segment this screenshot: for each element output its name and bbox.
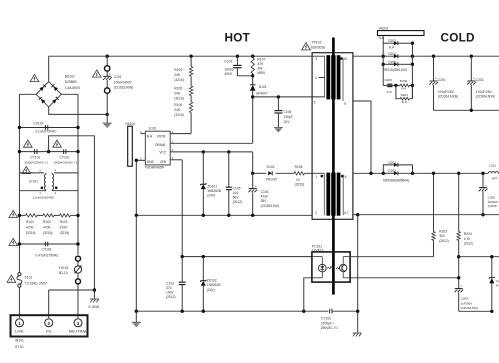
svg-text:1.5A,800V: 1.5A,800V — [65, 86, 81, 90]
svg-text:+: + — [473, 76, 475, 80]
wire LF101 top right — [54, 172, 78, 174]
svg-text:N.A: N.A — [379, 36, 385, 40]
label R107 — [257, 57, 265, 75]
pin 9 label — [344, 102, 346, 106]
label SR506A — [383, 178, 410, 182]
svg-text:(2012): (2012) — [233, 200, 243, 204]
svg-text:R104: R104 — [174, 68, 182, 72]
label LF101 value — [33, 196, 54, 200]
secondary winding line bottom — [342, 175, 344, 216]
capacitor C204 — [455, 284, 464, 311]
label D205 — [388, 60, 396, 64]
junction bridge minus / C101 minus — [106, 113, 109, 116]
svg-text:+: + — [485, 184, 487, 188]
capacitor CY102 — [64, 149, 66, 154]
label SR210 — [383, 68, 407, 72]
capacitor CY103 — [330, 309, 332, 314]
label CY102 — [53, 156, 77, 165]
label D102 — [266, 165, 278, 181]
svg-text:D25B80: D25B80 — [65, 80, 77, 84]
wire bridge left to left rail — [19, 93, 36, 95]
svg-text:(CD263,K98): (CD263,K98) — [114, 86, 133, 90]
svg-text:CX102: CX102 — [33, 121, 43, 125]
svg-text:(CD263.KM): (CD263.KM) — [461, 306, 478, 310]
svg-text:UF4007: UF4007 — [256, 91, 268, 95]
label C204 — [461, 297, 478, 311]
junction bottom rail left — [135, 310, 138, 313]
svg-text:D204: D204 — [388, 52, 396, 56]
wire secondary top rail — [353, 55, 499, 57]
junction bottom at opto — [302, 310, 305, 313]
label S-GND — [88, 305, 99, 309]
label F101 — [25, 276, 48, 286]
capacitor C105 — [226, 152, 232, 215]
connector IN101 box — [11, 315, 88, 336]
svg-text:S-GND: S-GND — [88, 305, 99, 309]
capacitor C104 — [249, 173, 258, 215]
svg-text:3: 3 — [315, 57, 317, 61]
svg-text:2: 2 — [315, 211, 317, 215]
capacitor C101 — [103, 56, 112, 114]
junction GND rail left — [135, 214, 138, 217]
svg-text:N.A: N.A — [387, 90, 393, 94]
capacitor C106 — [274, 97, 282, 128]
svg-text:47uF: 47uF — [261, 194, 269, 198]
svg-text:2: 2 — [47, 321, 50, 326]
junction CY row right — [76, 150, 79, 153]
svg-text:EER3016: EER3016 — [311, 46, 325, 50]
resistor R108 — [294, 172, 305, 175]
svg-text:C204: C204 — [461, 297, 469, 301]
svg-text:470K: 470K — [26, 226, 35, 230]
connector pin 3 NEUTRAL — [69, 319, 88, 334]
junction on B+ rail at C102 — [236, 55, 239, 58]
svg-text:R106: R106 — [174, 103, 182, 107]
svg-text:R204: R204 — [464, 232, 472, 236]
zener ZD102 — [200, 257, 206, 312]
svg-text:4.7K: 4.7K — [464, 237, 472, 241]
svg-text:(CD28: (CD28 — [488, 204, 497, 208]
svg-text:F101: F101 — [25, 276, 33, 280]
junction CX102 right — [76, 126, 79, 129]
svg-text:12mH(1420400): 12mH(1420400) — [33, 196, 54, 200]
wire bridge right to right rail — [61, 93, 78, 95]
wire R104 chain — [170, 56, 191, 133]
label PC101 — [312, 244, 323, 252]
svg-text:(2012): (2012) — [439, 239, 449, 243]
svg-text:L201: L201 — [489, 164, 496, 168]
svg-text:FG: FG — [46, 329, 52, 334]
wire hot GND drop — [135, 215, 137, 311]
svg-text:D101: D101 — [259, 85, 267, 89]
wire B+ top rail — [49, 55, 325, 57]
svg-text:LTV817: LTV817 — [312, 248, 323, 252]
junction 12V at R204 — [457, 172, 460, 175]
svg-text:5D-13: 5D-13 — [59, 271, 68, 275]
svg-text:9: 9 — [344, 102, 346, 106]
primary winding line bottom — [323, 173, 325, 215]
svg-text:VFB: VFB — [160, 160, 166, 164]
junction drain at C106 — [277, 95, 280, 98]
label D101 — [256, 85, 268, 96]
svg-text:10: 10 — [296, 178, 300, 182]
label HS201 N.A — [379, 36, 385, 40]
label U201 clipped — [496, 279, 499, 288]
label D204 — [388, 52, 396, 56]
label D203 — [388, 39, 396, 49]
svg-text:NEUTRAL: NEUTRAL — [69, 329, 88, 334]
bridge rectifier BD101 — [36, 82, 61, 107]
resistor R204 — [457, 232, 460, 241]
svg-text:ST-01: ST-01 — [15, 345, 24, 349]
wire R101 row — [19, 214, 78, 216]
svg-text:250VAC-Y1: 250VAC-Y1 — [321, 326, 338, 330]
junction D205 left — [382, 63, 385, 66]
svg-text:1KV: 1KV — [283, 120, 290, 124]
wire D block right line — [411, 43, 413, 98]
svg-text:C202: C202 — [476, 78, 484, 82]
svg-text:2200pF /: 2200pF / — [321, 321, 334, 325]
svg-text:1N5262B: 1N5262B — [207, 283, 222, 287]
primary winding line top — [324, 56, 326, 97]
resistor R200 — [400, 84, 409, 87]
label CX101 — [36, 248, 60, 258]
label R201 — [401, 93, 409, 104]
wire FG — [49, 290, 95, 318]
junction VFB at C103 — [181, 255, 184, 258]
warning triangle above CY102 — [53, 140, 62, 147]
label R204 — [464, 232, 474, 245]
svg-text:10: 10 — [344, 57, 348, 61]
label C201 — [438, 78, 458, 98]
junction CX101 right — [76, 242, 79, 245]
svg-text:1: 1 — [18, 321, 21, 326]
capacitor CX101 — [45, 242, 47, 247]
junction bottom at C103 — [181, 310, 184, 313]
op-amp U101 FSDM0465R box — [145, 131, 170, 165]
svg-text:TH101: TH101 — [59, 266, 69, 270]
junction VFB at ZD102 — [202, 255, 205, 258]
svg-text:CY101: CY101 — [30, 156, 40, 160]
svg-text:LIVE: LIVE — [15, 329, 24, 334]
svg-text:100V: 100V — [166, 291, 175, 295]
svg-text:HFT: HFT — [492, 176, 498, 180]
secondary winding bar bottom — [337, 173, 341, 216]
junction bottom at ZD102 — [202, 310, 205, 313]
wire CY101/CY102 row — [19, 151, 78, 153]
heatsink HS101 — [128, 126, 133, 166]
svg-text:470K: 470K — [43, 226, 52, 230]
svg-text:24K: 24K — [174, 108, 181, 112]
junction rail at D201 right — [411, 172, 414, 175]
label HS101 — [125, 122, 135, 126]
label TH101 — [59, 266, 69, 275]
svg-text:C102: C102 — [224, 60, 232, 64]
capacitor C202 — [467, 56, 476, 110]
wire drain node to transformer pin5 — [253, 96, 325, 98]
svg-text:FSDM0465R: FSDM0465R — [145, 166, 165, 170]
hot ground below C106 — [274, 128, 283, 132]
svg-text:D102: D102 — [267, 165, 275, 169]
label C101 — [114, 75, 133, 90]
svg-text:35V: 35V — [261, 199, 268, 203]
label R101 — [26, 220, 36, 235]
junction R204 at FB rail — [457, 255, 460, 258]
wire U101 VCC rail — [170, 152, 253, 173]
wire hot bottom rail — [136, 310, 357, 312]
label D201 — [388, 161, 396, 165]
heatsink HS201 — [378, 31, 425, 36]
svg-text:R105: R105 — [174, 87, 182, 91]
junction zener bottom — [490, 310, 493, 313]
junction D205 right — [411, 63, 414, 66]
opto LED — [312, 257, 326, 278]
resistor R103 — [60, 214, 71, 217]
hot ground below bridge — [103, 114, 112, 127]
svg-text:24K: 24K — [174, 92, 181, 96]
label R102 — [43, 220, 53, 235]
opto light arrows — [327, 266, 340, 269]
label ZD102 — [207, 279, 222, 292]
svg-text:4: 4 — [315, 76, 317, 80]
wire Y-cap midpoint to S-GND line — [49, 136, 95, 299]
inductor LF101 common-mode choke — [41, 173, 58, 191]
svg-text:50V: 50V — [233, 196, 240, 200]
warning triangle near F101 — [7, 275, 16, 282]
wire opto emitter — [350, 277, 459, 279]
svg-text:IN101: IN101 — [15, 338, 24, 342]
svg-text:1000pF/250VAC-Y1: 1000pF/250VAC-Y1 — [24, 160, 48, 164]
junction cold GND at C205 — [481, 213, 484, 216]
svg-text:(CD264,NXB): (CD264,NXB) — [438, 95, 458, 99]
svg-text:0.1uF/275VAC: 0.1uF/275VAC — [35, 130, 57, 134]
junction R row right — [76, 214, 79, 217]
label R203 — [439, 229, 449, 242]
svg-text:6,7: 6,7 — [344, 211, 349, 215]
junction drain node — [251, 95, 254, 98]
junction rail at C201 — [432, 55, 435, 58]
barrier core bar top — [331, 55, 335, 99]
svg-text:ZD101: ZD101 — [207, 184, 217, 188]
svg-text:VSTR: VSTR — [157, 135, 166, 139]
diode D102 — [268, 171, 272, 175]
junction 12V at R203 — [432, 172, 435, 175]
svg-text:PR1007: PR1007 — [266, 177, 278, 181]
resistor R104 — [189, 67, 192, 77]
label C102 — [224, 60, 233, 77]
wire D block left line — [382, 43, 384, 85]
junction on B+ rail at R107 — [251, 55, 254, 58]
secondary winding line top — [342, 58, 344, 101]
svg-text:VCC: VCC — [159, 151, 166, 155]
pin numbers U101 — [140, 130, 174, 161]
svg-text:470uF/25V: 470uF/25V — [438, 90, 455, 94]
label R103 — [60, 220, 70, 235]
wire D201 loop — [383, 165, 412, 173]
wire C204 bottom rail — [459, 310, 492, 312]
wire CX102 row — [19, 127, 78, 129]
svg-text:300: 300 — [439, 234, 445, 238]
label FSDM0465R — [145, 166, 165, 170]
svg-text:0.47uF/275VAC: 0.47uF/275VAC — [36, 253, 60, 257]
svg-text:2W: 2W — [257, 67, 263, 71]
svg-text:T3.15AL/ 250V: T3.15AL/ 250V — [25, 281, 48, 285]
pin 5 N.A stub — [140, 130, 145, 134]
warning triangle near C101 — [93, 70, 102, 77]
svg-text:+: + — [108, 72, 110, 76]
label C106 — [283, 110, 292, 124]
primary winding bar bottom — [326, 173, 330, 216]
svg-text:D203: D203 — [388, 39, 396, 43]
svg-text:1uF/50V: 1uF/50V — [461, 301, 474, 305]
junction R row left — [18, 214, 21, 217]
svg-text:C105: C105 — [233, 186, 241, 190]
svg-text:C103: C103 — [166, 281, 174, 285]
wire feedback rail — [459, 256, 499, 258]
junction rail at C202 — [470, 55, 473, 58]
svg-text:(2012): (2012) — [166, 295, 176, 299]
junction CX101 left — [18, 242, 21, 245]
junction bottom at C202 — [470, 109, 473, 112]
svg-text:TP101: TP101 — [312, 40, 322, 44]
resistor R102 — [43, 214, 54, 217]
label BD101 — [65, 75, 81, 90]
pin 4 stub — [315, 76, 324, 80]
earth ground S-GND — [90, 299, 99, 302]
label CY103 — [321, 317, 338, 330]
resistor R203 — [432, 232, 435, 241]
svg-text:1000pF/250VAC-Y1: 1000pF/250VAC-Y1 — [53, 160, 77, 164]
wire bridge top to rail — [48, 56, 50, 81]
junction S-GND line at FG wire — [93, 288, 96, 291]
label R105 — [174, 87, 184, 101]
pin 2 label — [315, 211, 317, 215]
wire opto collector — [350, 256, 433, 258]
warning triangle near bridge — [30, 74, 39, 81]
pin labels inside U101 — [147, 135, 167, 164]
resistor R105 — [189, 86, 192, 96]
svg-text:3: 3 — [77, 321, 80, 326]
wire opto cathode to ground — [304, 278, 312, 311]
hot ground bottom — [132, 311, 141, 326]
label R108 — [295, 165, 305, 187]
thermistor TH101 — [74, 256, 82, 318]
junction on B+ rail at R104 — [189, 55, 192, 58]
label CY101 — [24, 156, 48, 165]
svg-text:CX101: CX101 — [42, 248, 52, 252]
wire 12V rail — [353, 172, 499, 174]
svg-text:1000p: 1000p — [224, 67, 233, 71]
svg-text:BD101: BD101 — [65, 75, 75, 79]
svg-text:100uF/450V: 100uF/450V — [114, 80, 133, 84]
wire right input rail — [77, 94, 79, 254]
fuse F101 — [17, 246, 22, 318]
junction emitter at C204 — [457, 276, 460, 279]
svg-text:CY102: CY102 — [59, 156, 69, 160]
junction rail at pin9 — [369, 172, 372, 175]
secondary winding bar top — [337, 55, 341, 99]
svg-text:8: 8 — [345, 175, 347, 179]
svg-text:HOT: HOT — [225, 30, 251, 44]
capacitor C102 — [233, 56, 253, 76]
svg-text:473: 473 — [166, 286, 172, 290]
svg-text:C205: C205 — [488, 195, 496, 199]
warning triangle near R101 — [9, 210, 18, 217]
resistor R107 — [251, 56, 254, 84]
svg-text:470uF/25V: 470uF/25V — [476, 90, 493, 94]
svg-text:R101: R101 — [26, 220, 34, 224]
capacitor CY101 — [35, 149, 37, 154]
pin 5 label — [314, 101, 316, 105]
svg-text:R201: R201 — [401, 93, 409, 97]
diode D204 — [394, 54, 398, 58]
svg-text:HS101: HS101 — [125, 122, 135, 126]
wire U101 GND pin2 — [136, 160, 145, 215]
wire left input rail — [18, 94, 20, 246]
svg-text:(CD263,KM): (CD263,KM) — [261, 204, 279, 208]
transformer TP101 box — [312, 53, 353, 220]
svg-text:CY103: CY103 — [321, 317, 331, 321]
label D202 — [388, 169, 396, 173]
resistor R101 — [26, 214, 38, 217]
label R106 — [174, 103, 184, 117]
svg-text:47K: 47K — [257, 62, 264, 66]
junction D203 right — [411, 42, 414, 45]
warning triangle above CY101 — [24, 140, 33, 147]
svg-text:N.A: N.A — [147, 135, 153, 139]
svg-text:C101: C101 — [114, 75, 122, 79]
svg-text:(3216): (3216) — [60, 231, 70, 235]
wire cold GND rail — [353, 214, 499, 216]
svg-text:D205: D205 — [388, 60, 396, 64]
junction snubber — [251, 74, 254, 77]
label IN101 — [15, 338, 24, 342]
svg-text:(3216): (3216) — [26, 231, 36, 235]
diode D205 — [383, 62, 412, 66]
connector pin 1 LIVE — [15, 319, 24, 334]
label R104 — [174, 68, 184, 82]
svg-text:C104: C104 — [261, 190, 269, 194]
barrier core bar bottom — [331, 173, 335, 216]
capacitor C205 — [479, 173, 488, 214]
svg-text:1: 1 — [315, 175, 317, 179]
svg-text:(24V): (24V) — [207, 288, 215, 292]
wire R201 loop — [396, 85, 413, 98]
resistor R106 — [189, 102, 192, 113]
svg-text:104: 104 — [233, 191, 239, 195]
wire C201/C202 bottom rail — [434, 109, 499, 111]
HOT section title — [225, 30, 251, 44]
label CX102 — [33, 121, 57, 133]
junction CY row mid — [47, 150, 50, 153]
svg-text:(3216): (3216) — [174, 113, 184, 117]
svg-text:MRN: MRN — [257, 71, 265, 75]
junction GND at C104 — [251, 214, 254, 217]
pin 3 label — [315, 57, 317, 61]
svg-text:+: + — [435, 76, 437, 80]
svg-text:C106: C106 — [283, 110, 291, 114]
label LF101 — [29, 180, 39, 184]
label C104 — [261, 190, 279, 208]
label U101 — [149, 127, 157, 131]
svg-text:(24V): (24V) — [207, 194, 215, 198]
wire pin9 to rail — [353, 101, 371, 173]
wire LF101 bottom left — [19, 190, 46, 192]
label C103 — [166, 281, 176, 299]
svg-text:(3216): (3216) — [174, 97, 184, 101]
junction GND at C105 — [227, 214, 230, 217]
svg-text:N.A: N.A — [389, 45, 395, 49]
